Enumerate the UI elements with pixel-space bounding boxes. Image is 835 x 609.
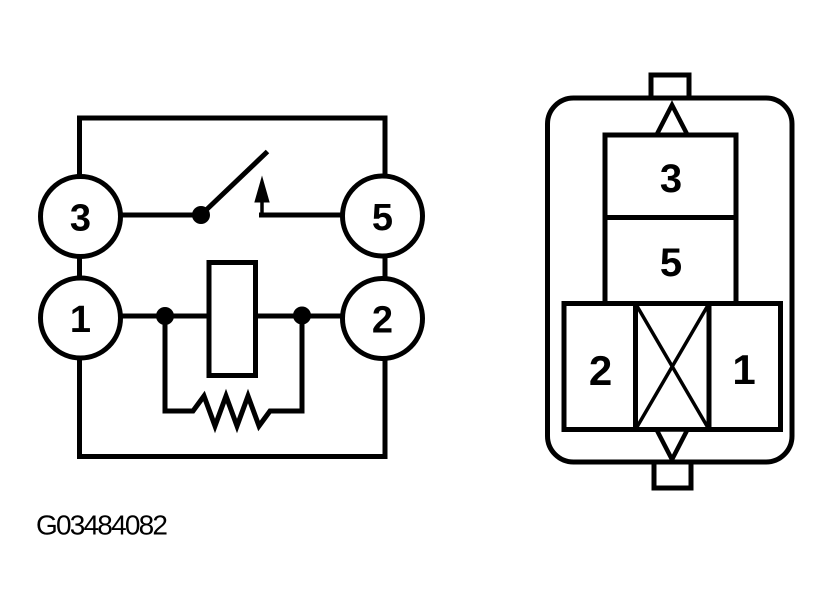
wire: switch arrow to pin 5 — [259, 213, 381, 218]
wire: left diagram outer loop — [80, 118, 386, 457]
svg-text:5: 5 — [660, 241, 682, 285]
center keyway box with X — [636, 304, 710, 430]
terminal cavity 1 — [709, 304, 781, 430]
pin 5 terminal circle — [343, 176, 423, 256]
svg-text:2: 2 — [589, 347, 612, 394]
keyway triangle bottom (index mark) — [657, 430, 688, 460]
pin 3 terminal circle — [41, 177, 121, 257]
svg-text:2: 2 — [372, 300, 393, 342]
node: junction dot right (pin2 side) — [293, 307, 311, 325]
switch blade (relay contact arm) — [203, 152, 268, 214]
wire: pin 1 to pin 2 through coil — [82, 314, 381, 319]
connector bottom locking tab — [654, 461, 691, 488]
wire: pin 3 to switch contact — [82, 213, 201, 218]
connector body (rounded rectangle) — [548, 98, 793, 462]
resistor (parallel with coil) — [165, 316, 302, 426]
svg-text:1: 1 — [732, 346, 755, 393]
terminal cavity 3 — [605, 135, 736, 218]
keyway triangle top (index mark) — [657, 105, 688, 135]
svg-text:5: 5 — [372, 197, 393, 239]
svg-text:1: 1 — [70, 299, 91, 341]
terminal cavity 2 — [564, 304, 636, 430]
pin 1 terminal circle — [41, 278, 121, 358]
svg-text:3: 3 — [660, 157, 682, 201]
connector top locking tab — [651, 75, 689, 100]
svg-text:3: 3 — [70, 198, 91, 240]
pin 2 terminal circle — [343, 279, 423, 359]
relay coil (rectangle symbol) — [209, 263, 256, 376]
svg-text:G03484082: G03484082 — [36, 510, 167, 541]
terminal cavity 5 — [605, 218, 736, 304]
switch stationary contact arrow — [254, 176, 269, 203]
node: switch pivot junction dot — [192, 206, 210, 224]
node: junction dot left (pin1 side) — [156, 307, 174, 325]
